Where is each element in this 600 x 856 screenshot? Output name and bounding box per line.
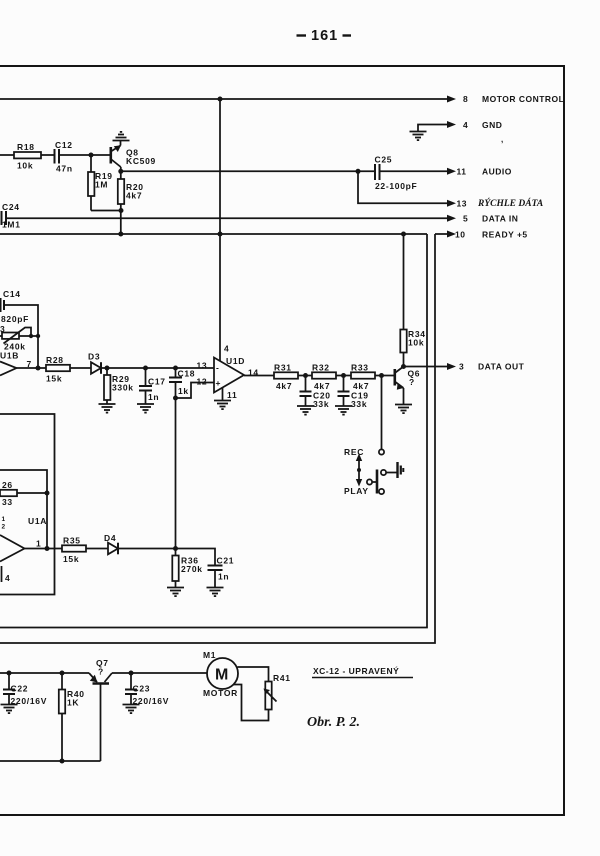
motor M1 (207, 658, 238, 689)
wire pin10 stub and outer drop (435, 233, 449, 235)
pin 11 arrow (447, 168, 456, 175)
svg-text:15k: 15k (63, 554, 79, 564)
svg-text:1M: 1M (95, 180, 108, 190)
diode D4 (108, 543, 118, 555)
svg-text:1n: 1n (148, 392, 159, 402)
wire D4 to C21 (118, 549, 215, 566)
trimmer 240k (0, 328, 38, 344)
resistor R18 (14, 152, 41, 158)
svg-text:820pF: 820pF (1, 314, 29, 324)
pin 5 label DATA IN (463, 214, 518, 224)
wire R31-R32 (298, 375, 312, 377)
svg-text:10: 10 (455, 230, 465, 240)
svg-text:R28: R28 (46, 355, 64, 365)
svg-text:M: M (215, 667, 228, 684)
svg-text:4: 4 (463, 120, 468, 130)
node junction on motor control line (218, 97, 223, 102)
svg-text:8: 8 (463, 94, 468, 104)
box around U1A (0, 414, 55, 595)
wire data out (404, 366, 450, 368)
node C20 junction (303, 373, 308, 378)
wire gnd pin stub (418, 125, 449, 132)
node R34 rail junction (401, 232, 406, 237)
transistor Q6 (395, 367, 404, 405)
wire U1B output to R28 (17, 367, 47, 369)
svg-text:1k: 1k (178, 386, 189, 396)
wire D3 to U1D (101, 367, 214, 369)
svg-text:4k7: 4k7 (314, 381, 330, 391)
wire pin 4 stub (1, 566, 3, 582)
svg-text:C22: C22 (11, 684, 29, 694)
svg-text:5: 5 (463, 214, 468, 224)
svg-text:3: 3 (459, 362, 464, 372)
svg-text:READY +5: READY +5 (482, 230, 528, 240)
svg-text:10k: 10k (17, 161, 33, 171)
capacitor C22 (3, 673, 15, 705)
node C22 junction (7, 671, 12, 676)
capacitor C24 (2, 211, 7, 225)
wire motor to R41 top (238, 667, 269, 682)
capacitor C20 (300, 376, 312, 407)
svg-text:+: + (216, 378, 222, 388)
wire pin 11 to ground (222, 388, 224, 401)
wire R32-R33 (336, 375, 351, 377)
svg-text:1K: 1K (67, 698, 79, 708)
svg-text:?: ? (98, 667, 104, 677)
svg-text:Obr. P. 2.: Obr. P. 2. (307, 715, 360, 730)
pin 3 arrow (447, 363, 456, 370)
ground (U1D pin 11) (214, 401, 231, 410)
node R20 bottom junction (119, 208, 124, 213)
pin 8 arrow (447, 96, 456, 103)
capacitor C18 (169, 368, 182, 398)
svg-text:1: 1 (36, 539, 41, 549)
svg-text:REC: REC (344, 447, 364, 457)
svg-text:4k7: 4k7 (276, 381, 292, 391)
capacitor C17 (139, 368, 152, 404)
wire switch branch drop (381, 376, 383, 450)
pin 13 arrow (447, 200, 456, 207)
svg-text:33k: 33k (351, 399, 367, 409)
svg-text:XC-12 - UPRAVENÝ: XC-12 - UPRAVENÝ (313, 665, 399, 676)
ground (C22) (1, 705, 18, 714)
svg-text:DATA IN: DATA IN (482, 214, 518, 224)
pin 11 label AUDIO (457, 167, 512, 177)
svg-text:C12: C12 (55, 140, 73, 150)
resistor R20 (120, 171, 122, 179)
node C18 junction (173, 366, 178, 371)
node trimmer junctions (29, 334, 33, 338)
resistor R28 (46, 365, 70, 371)
pin 10 label READY +5 (455, 230, 528, 240)
wire long drop to D4 node (175, 398, 177, 549)
pin 13 label RYCHLE DATA (457, 197, 544, 209)
svg-text:,: , (501, 135, 503, 144)
svg-text:C17: C17 (148, 377, 166, 387)
node C23 junction (129, 671, 134, 676)
svg-text:4: 4 (224, 344, 229, 354)
resistor R32 (312, 372, 336, 378)
wire C25 to pin 11 (381, 170, 450, 172)
svg-text:U1D: U1D (226, 356, 245, 366)
svg-text:C25: C25 (375, 155, 393, 165)
resistor R31 (274, 372, 298, 378)
wire R35 to D4 (86, 548, 108, 550)
svg-text:D3: D3 (88, 352, 100, 362)
svg-text:1n: 1n (218, 572, 229, 582)
capacitor C19 (338, 376, 350, 407)
svg-text:33k: 33k (313, 399, 329, 409)
svg-text:4k7: 4k7 (353, 381, 369, 391)
resistor R40 (59, 673, 65, 761)
svg-text:11: 11 (227, 390, 237, 400)
wire C12 to Q8 base (59, 154, 110, 156)
ground (C17) (137, 404, 154, 413)
capacitor C21 (208, 566, 223, 588)
ground (R36) (167, 588, 184, 597)
svg-text:?: ? (409, 377, 415, 387)
pin 8 label MOTOR CONTROL (463, 94, 564, 104)
svg-text:161: 161 (311, 28, 338, 44)
op-amp U1B (clipped) (0, 362, 17, 376)
node R20 to ready rail (118, 232, 123, 237)
ground (C20) (297, 406, 314, 415)
resistor R19 (90, 155, 92, 172)
node R29 junction (105, 366, 110, 371)
pin labels U1A inputs (2, 516, 6, 531)
wire ready rail inner drop (0, 234, 427, 628)
svg-text:C23: C23 (133, 684, 151, 694)
svg-text:M1: M1 (203, 650, 216, 660)
resistor R34 (400, 330, 406, 353)
svg-text:330k: 330k (112, 383, 134, 393)
svg-text:MOTOR CONTROL: MOTOR CONTROL (482, 94, 564, 104)
capacitor C14 (1, 298, 5, 312)
node C18 lower junction (173, 396, 178, 401)
wire inner feedback (0, 470, 47, 549)
svg-text:11: 11 (457, 167, 467, 177)
svg-text:GND: GND (482, 120, 502, 130)
svg-text:PLAY: PLAY (344, 486, 369, 496)
svg-text:4: 4 (5, 573, 10, 583)
node pin4 rail junction (218, 232, 223, 237)
wire base return line (0, 760, 101, 762)
wire pin4 vertical drop (219, 99, 221, 363)
wire base line to R18 (0, 154, 14, 156)
svg-text:270k: 270k (181, 564, 203, 574)
resistor R36 (175, 549, 177, 556)
wire C18 to U1D plus input (176, 383, 215, 399)
svg-text:12: 12 (197, 377, 208, 387)
wire motor bottom loop (234, 685, 269, 721)
label Obr. P.2. (307, 715, 360, 730)
capacitor C25 (375, 164, 380, 180)
svg-text:2: 2 (2, 524, 6, 531)
transistor Q8 KC509 (111, 141, 121, 172)
wire motor-control line (0, 98, 449, 100)
svg-text:D4: D4 (104, 533, 116, 543)
svg-text:AUDIO: AUDIO (482, 167, 512, 177)
page number 161 (311, 28, 338, 44)
node audio branch junction (356, 169, 361, 174)
node R40 bottom junction (60, 759, 65, 764)
svg-text:1M1: 1M1 (2, 220, 21, 230)
svg-text:-: - (216, 363, 220, 373)
svg-text:26: 26 (2, 480, 13, 490)
node data out junction (401, 364, 406, 369)
svg-text:R33: R33 (351, 363, 369, 373)
svg-text:MOTOR: MOTOR (203, 688, 238, 698)
ground (C19) (335, 406, 352, 415)
node C14 branch junction (36, 366, 41, 371)
node R36 junction (173, 546, 178, 551)
svg-text:KC509: KC509 (126, 156, 156, 166)
transistor Q7 (89, 673, 112, 761)
ground (Q6 emitter) (395, 405, 412, 414)
svg-text:C14: C14 (3, 289, 21, 299)
resistor R26 (0, 490, 17, 496)
op-amp U1A (clipped) (0, 535, 25, 562)
node R26 junction (45, 491, 50, 496)
svg-text:13: 13 (457, 199, 467, 209)
svg-text:R18: R18 (17, 142, 35, 152)
wire R18 to C12 (41, 154, 55, 156)
svg-text:47n: 47n (56, 164, 73, 174)
svg-text:C21: C21 (217, 556, 235, 566)
svg-text:10k: 10k (408, 338, 424, 348)
wire C14 branch (4, 305, 38, 368)
pin 5 arrow (447, 215, 456, 222)
ground (pin 4) (410, 132, 427, 141)
wire ready +5 rail (0, 233, 427, 235)
svg-text:R41: R41 (273, 673, 291, 683)
resistor R33 (351, 372, 375, 378)
svg-text:15k: 15k (46, 374, 62, 384)
label XC-12 UPRAVENY (313, 665, 399, 676)
pin 4 label GND (463, 120, 503, 144)
pin 10 arrow (447, 231, 456, 238)
resistor R29 (106, 368, 108, 375)
svg-text:RÝCHLE DÁTA: RÝCHLE DÁTA (477, 197, 543, 209)
head symbol (398, 462, 404, 478)
svg-text:3: 3 (0, 324, 5, 334)
svg-text:C18: C18 (178, 369, 196, 379)
wire R33 to Q6 base (375, 375, 394, 377)
wire audio to rychle data branch (358, 171, 449, 203)
wire data-in line (6, 217, 449, 219)
op-amp U1D (214, 358, 244, 393)
capacitor C12 (55, 149, 60, 164)
resistor R35 (62, 545, 86, 551)
wire U1A output (25, 548, 63, 550)
ground (C21) (207, 588, 224, 597)
node R19 top junction (89, 153, 94, 158)
capacitor C23 (125, 673, 137, 705)
svg-text:DATA OUT: DATA OUT (478, 362, 525, 372)
pin 4 arrow (447, 121, 456, 128)
svg-text:U1A: U1A (28, 516, 47, 526)
svg-text:33: 33 (2, 497, 13, 507)
wire motor supply line (0, 672, 89, 674)
svg-text:U1B: U1B (0, 351, 19, 361)
svg-text:13: 13 (197, 361, 208, 371)
svg-text:R31: R31 (274, 363, 292, 373)
svg-text:R35: R35 (63, 536, 81, 546)
wire R28 to D3 (70, 367, 91, 369)
rheostat R41 (264, 682, 277, 710)
svg-text:4k7: 4k7 (126, 191, 142, 201)
wire U1D output (244, 375, 274, 377)
ground (C23) (123, 705, 140, 714)
ground (Q8 emitter, inverted) (113, 132, 130, 141)
switch REC/PLAY (356, 449, 397, 494)
svg-text:1: 1 (2, 516, 6, 523)
diode D3 (91, 362, 101, 374)
node audio line junction at Q8 (118, 169, 123, 174)
node C19 junction (341, 373, 346, 378)
wire Q7 to motor (112, 672, 207, 674)
svg-text:22-100pF: 22-100pF (375, 181, 417, 191)
svg-text:R32: R32 (312, 363, 330, 373)
node switch branch junction (379, 373, 384, 378)
wire audio line (121, 170, 374, 172)
node C17 junction (143, 366, 148, 371)
wire R34 supply drop (403, 234, 405, 330)
node U1A output junction (45, 546, 50, 551)
pin 3 label DATA OUT (459, 362, 525, 372)
wire R19 bottom to R20 bottom (91, 210, 121, 212)
node R40 junction (60, 671, 65, 676)
svg-text:C24: C24 (2, 202, 20, 212)
ground (R29) (99, 404, 116, 413)
